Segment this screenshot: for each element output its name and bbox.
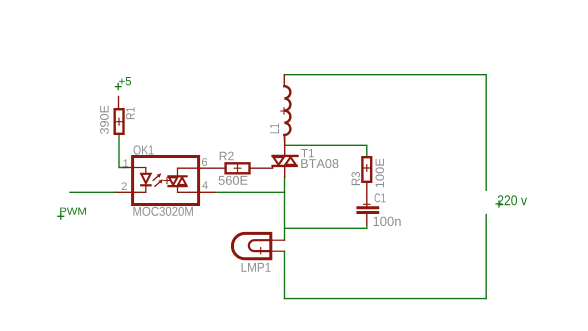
inductor L1: [281, 75, 291, 146]
opto internal LED: [134, 168, 151, 193]
lamp LMP1: [232, 233, 284, 258]
opto pin number 6: [202, 158, 207, 166]
opto OK1 value MOC3020M: [133, 207, 192, 216]
opto pin number 1: [123, 159, 128, 167]
wire lamp bottom terminal to bottom net: [284, 251, 286, 298]
wire snubber bottom from node to C1: [285, 227, 367, 229]
wire right rail upper segment: [485, 75, 487, 191]
resistor R1 body: [115, 97, 124, 134]
supply +5 label: [119, 77, 131, 85]
resistor R2 body: [226, 163, 250, 173]
net label 220 v: [498, 195, 527, 205]
net label 220v cross: [496, 201, 502, 207]
resistor R3 name: [351, 172, 360, 185]
wire C1 bottom to snubber bottom corner: [366, 224, 368, 229]
wire R1 bottom to opto pin1: [119, 134, 124, 168]
resistor R1 name: [126, 107, 134, 119]
wire snubber top from triac top node to R3: [285, 145, 367, 157]
wire bottom net: [285, 298, 487, 300]
wire right rail lower segment: [485, 215, 487, 299]
wire top net from L1 to right rail: [285, 74, 487, 76]
capacitor C1: [358, 182, 378, 225]
opto OK1 box: [133, 157, 199, 205]
wire R2 to triac gate: [250, 167, 273, 169]
opto internal photo-triac: [169, 168, 198, 192]
triac T1 name: [301, 149, 314, 157]
resistor R3 value 100E: [375, 159, 384, 188]
opto pin1 stub: [124, 167, 133, 169]
opto pin6 stub: [199, 167, 226, 169]
opto pin2 stub: [116, 191, 133, 193]
lamp LMP1 name: [242, 263, 271, 272]
opto pin number 4: [202, 181, 208, 189]
opto pin number 2: [122, 182, 127, 190]
capacitor C1 value 100n: [373, 217, 400, 227]
resistor R2 value 560E: [219, 176, 248, 185]
opto LED light arrow 1: [153, 174, 161, 181]
opto origin cross: [164, 177, 170, 183]
wire triac MT1 down to lamp top terminal: [284, 177, 286, 240]
wire opto pin4 to triac MT1 node: [214, 191, 285, 193]
opto OK1 name: [134, 145, 154, 154]
opto LED light arrow 2: [155, 180, 163, 187]
triac T1: [273, 136, 298, 178]
resistor R2 name: [220, 152, 234, 161]
net label PWM: [60, 208, 86, 215]
resistor R3 body: [362, 157, 371, 182]
net label PWM cross: [58, 213, 64, 219]
wire PWM net to opto pin2: [70, 191, 116, 193]
triac T1 value BTA08: [301, 159, 338, 168]
supply +5 cross: [115, 84, 121, 90]
opto pin4 stub: [199, 191, 215, 193]
capacitor C1 name: [375, 193, 386, 202]
resistor R1 value 390E: [100, 106, 109, 134]
inductor L1 name: [270, 124, 279, 134]
